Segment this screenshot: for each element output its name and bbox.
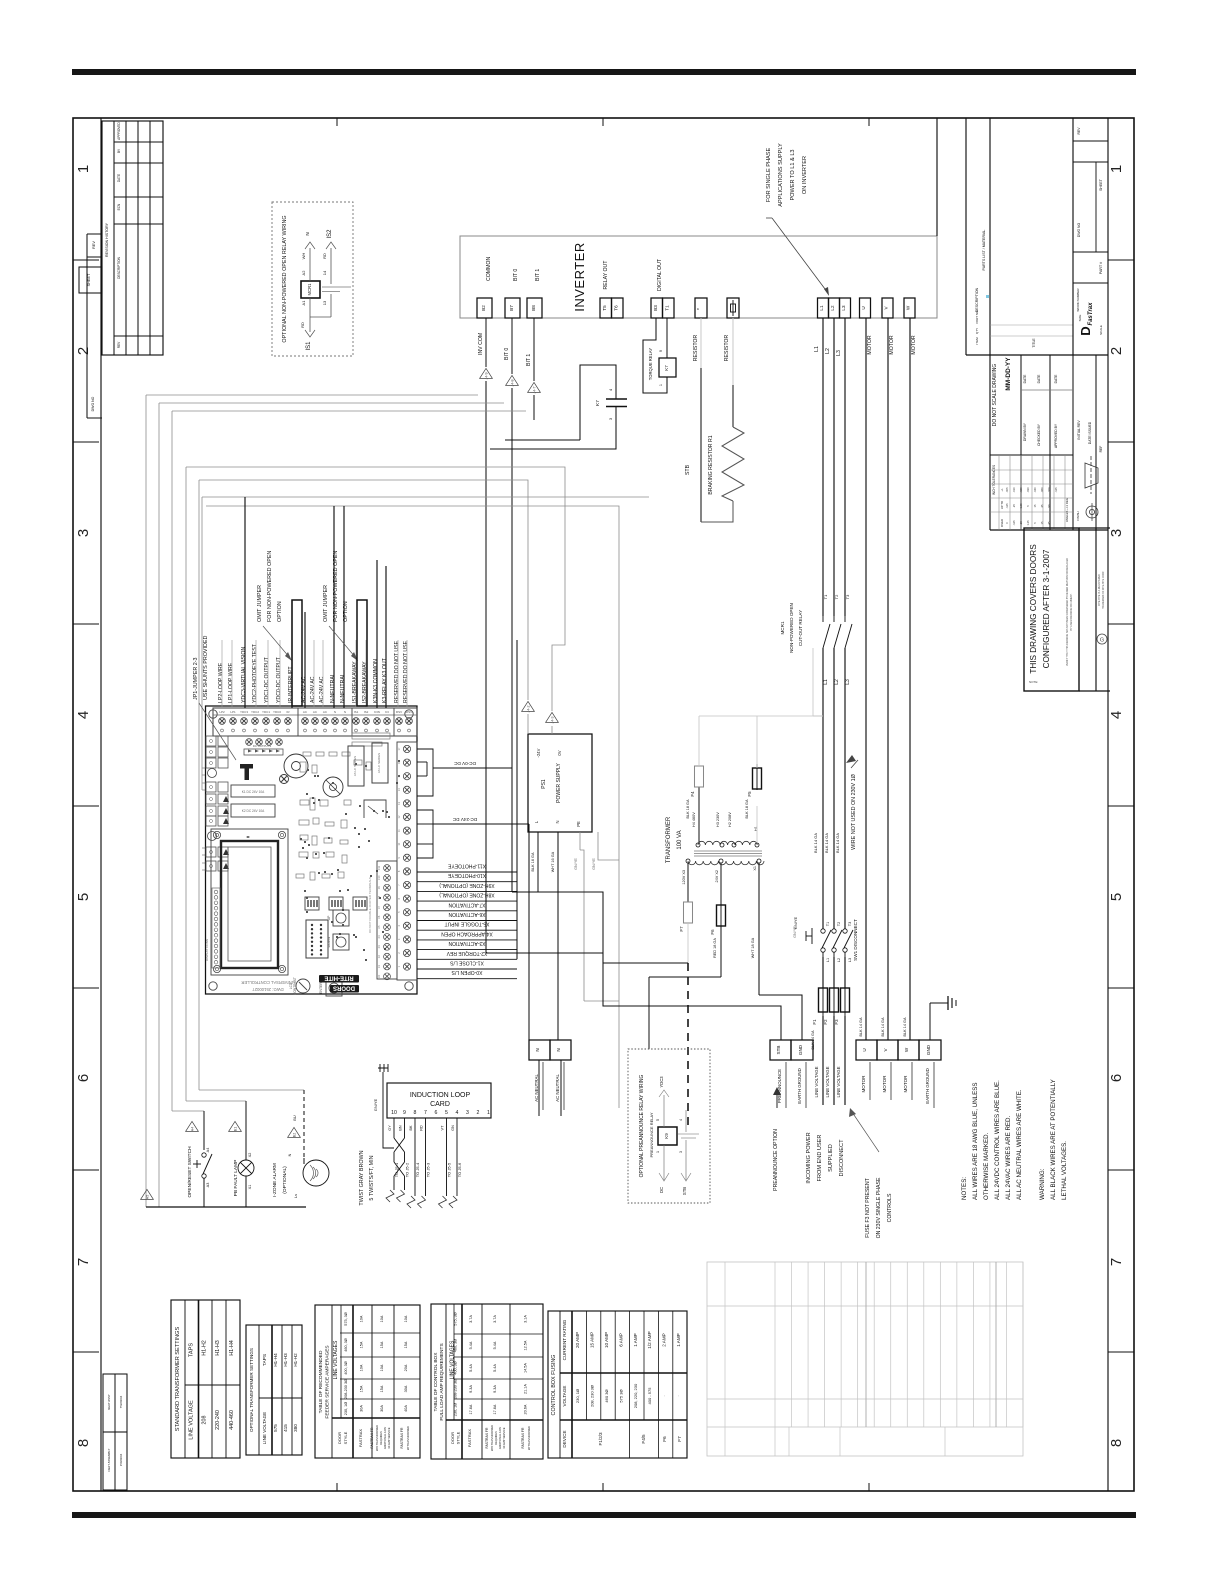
svg-text:9: 9 xyxy=(659,350,663,352)
svg-text:AC-24V AC: AC-24V AC xyxy=(319,676,325,703)
svg-text:L1: L1 xyxy=(826,958,830,962)
dc contactor screws xyxy=(246,739,253,746)
svg-text:.100: .100 xyxy=(1047,487,1051,493)
wire F7 to dashed junction xyxy=(687,923,689,963)
wire PS1 L join xyxy=(538,891,603,893)
terminal U xyxy=(860,298,871,318)
svg-text:A4: A4 xyxy=(191,1127,195,1131)
svg-text:RESERVED DO NOT USE: RESERVED DO NOT USE xyxy=(394,640,400,703)
svg-text:.005: .005 xyxy=(1005,487,1009,493)
svg-text:15A: 15A xyxy=(360,1385,364,1392)
svg-text:F4: F4 xyxy=(690,791,695,797)
svg-text:L2: L2 xyxy=(837,958,841,962)
svg-text:ANGLES +/-1 DEG: ANGLES +/-1 DEG xyxy=(1065,498,1069,522)
svg-text:VERIFY THAT THIS DRAWING HAS N: VERIFY THAT THIS DRAWING HAS NOT BEEN SU… xyxy=(1066,558,1069,666)
terminal T1 xyxy=(663,298,675,318)
wire BIT 0 from B7 xyxy=(511,318,513,374)
IC tall 2 xyxy=(372,743,388,783)
svg-text:L3: L3 xyxy=(848,958,852,962)
svg-text:MM-DD-YY: MM-DD-YY xyxy=(1005,357,1012,391)
svg-text:STB: STB xyxy=(776,1046,781,1055)
svg-text:1.25: 1.25 xyxy=(1026,520,1030,526)
wire B3 to torque relay xyxy=(643,318,667,393)
flag A4 ref xyxy=(186,1121,199,1131)
svg-text:N-NEUTRAL: N-NEUTRAL xyxy=(340,673,346,703)
svg-text:F7: F7 xyxy=(679,926,684,932)
svg-text:120V X3: 120V X3 xyxy=(682,870,686,885)
fuse F3 xyxy=(841,988,850,1012)
svg-text:SCALE: SCALE xyxy=(1099,325,1103,335)
svg-text:CARD: CARD xyxy=(430,1101,450,1108)
svg-text:L2: L2 xyxy=(830,305,835,311)
svg-text:LP1: LP1 xyxy=(230,710,236,714)
wire W from inverter to motor terminal xyxy=(909,318,911,1040)
terminal box GND earth xyxy=(791,1040,813,1060)
svg-text:L1: L1 xyxy=(814,346,820,352)
svg-text:A5: A5 xyxy=(146,1195,150,1199)
svg-text:LINE VOLTAGE: LINE VOLTAGE xyxy=(189,1400,195,1440)
svg-text:X10-PHOTOEYE: X10-PHOTOEYE xyxy=(447,872,486,878)
svg-text:MOTOR: MOTOR xyxy=(889,335,895,354)
wire DC-0V from output bracket xyxy=(433,767,512,769)
svg-text:QTY: QTY xyxy=(975,328,979,334)
fuse F5 xyxy=(753,768,762,789)
svg-text:FINISH: FINISH xyxy=(1076,511,1080,520)
svg-text:CURRENT RATING: CURRENT RATING xyxy=(562,1319,567,1360)
svg-text:DC OUTPUTS: DC OUTPUTS xyxy=(253,744,271,748)
svg-text:.030: .030 xyxy=(1026,487,1030,493)
svg-text:H1-H3: H1-H3 xyxy=(215,1340,221,1356)
svg-text:B8: B8 xyxy=(531,305,536,311)
wire to K7 capacitor top xyxy=(505,439,580,441)
leader from fuse note xyxy=(852,1112,879,1152)
svg-text:TAPS: TAPS xyxy=(189,1343,195,1357)
svg-text:BLK 14 GA: BLK 14 GA xyxy=(881,1017,885,1036)
svg-text:WH: WH xyxy=(301,253,306,260)
svg-text:14: 14 xyxy=(322,270,327,275)
svg-text:SHEET: SHEET xyxy=(1099,178,1103,191)
svg-text:FasTrax: FasTrax xyxy=(1088,302,1094,326)
svg-text:JP1-JUMPER 2-3: JP1-JUMPER 2-3 xyxy=(193,657,199,700)
svg-text:.060: .060 xyxy=(1040,487,1044,493)
terminal B2 COMMON xyxy=(477,298,492,318)
svg-text:3: 3 xyxy=(679,1151,683,1153)
svg-text:NEXT ASSEMBLY: NEXT ASSEMBLY xyxy=(107,1448,111,1471)
svg-text:A1: A1 xyxy=(301,300,306,306)
svg-text:REQUIRES: REQUIRES xyxy=(494,1431,498,1445)
svg-text:10: 10 xyxy=(391,1110,397,1116)
lcd contrast pot xyxy=(296,979,310,993)
svg-text:MOTOR: MOTOR xyxy=(861,1075,866,1093)
terminal V xyxy=(882,298,893,318)
wire U from inverter to motor terminal xyxy=(865,318,867,1040)
input terminal column X0-X11 xyxy=(377,861,397,979)
svg-text:14.5A: 14.5A xyxy=(524,1363,528,1373)
svg-text:TO J5-6: TO J5-6 xyxy=(457,1162,462,1177)
svg-text:FEEDER SERVICE AMPERAGES: FEEDER SERVICE AMPERAGES xyxy=(325,1345,331,1418)
wire BIT 1 from B8 xyxy=(533,318,535,381)
svg-text:K3N: K3N xyxy=(374,710,380,714)
svg-text:ON 230V SINGLE PHASE: ON 230V SINGLE PHASE xyxy=(876,1177,882,1238)
svg-text:+/-: +/- xyxy=(1000,488,1004,491)
svg-text:-24V: -24V xyxy=(536,748,541,757)
svg-text:RSV: RSV xyxy=(396,710,402,714)
svg-text:15A: 15A xyxy=(404,1341,408,1348)
svg-text:OPTION: OPTION xyxy=(277,601,283,622)
svg-text:K7: K7 xyxy=(664,365,669,371)
leader to L2 xyxy=(772,218,828,293)
svg-text:IR-INTERRUPT: IR-INTERRUPT xyxy=(288,666,294,703)
svg-text:DOOR: DOOR xyxy=(337,1432,342,1444)
svg-text:YDC1-DC OUTPUT: YDC1-DC OUTPUT xyxy=(264,656,270,703)
parts list block xyxy=(965,118,967,355)
left edge connector column C xyxy=(206,847,216,857)
pb fault lamp wire xyxy=(245,1101,247,1160)
loop wires VT GN xyxy=(446,1118,448,1196)
svg-text:DWG NO: DWG NO xyxy=(91,396,95,411)
svg-text:LP2-LOOP WIRE: LP2-LOOP WIRE xyxy=(218,662,224,703)
svg-text:H1-H3: H1-H3 xyxy=(283,1353,288,1367)
chassis ground symbol xyxy=(378,1067,388,1069)
svg-text:21.1A: 21.1A xyxy=(524,1384,528,1394)
circled G mark xyxy=(1097,634,1107,644)
svg-text:30 AMP SERVICE: 30 AMP SERVICE xyxy=(387,1427,391,1448)
svg-text:H1-H4: H1-H4 xyxy=(273,1353,278,1367)
svg-text:WHT 18 GA: WHT 18 GA xyxy=(751,937,755,958)
svg-text:LINE VOLTAGE: LINE VOLTAGE xyxy=(836,1066,841,1097)
board corner mounting holes xyxy=(209,710,217,718)
svg-text:20 AMP: 20 AMP xyxy=(575,1332,580,1348)
svg-text:PART #: PART # xyxy=(1099,262,1103,274)
svg-text:J4-3: J4-3 xyxy=(551,717,555,724)
svg-text:X1-CLOSE L/S: X1-CLOSE L/S xyxy=(450,960,484,966)
svg-text:L2: L2 xyxy=(825,348,831,354)
pb fault lamp xyxy=(238,1160,254,1176)
svg-text:230, 1Ø: 230, 1Ø xyxy=(575,1389,580,1403)
svg-text:1 AMP: 1 AMP xyxy=(633,1333,638,1347)
svg-text:CHECKED BY: CHECKED BY xyxy=(1037,423,1041,446)
svg-text:10A: 10A xyxy=(380,1315,384,1322)
svg-text:BLK 18 GA: BLK 18 GA xyxy=(686,799,690,818)
gray loop wires to transformer area xyxy=(202,496,649,498)
svg-text:N: N xyxy=(555,820,560,823)
svg-text:400 - 575: 400 - 575 xyxy=(647,1387,652,1405)
svg-text:N: N xyxy=(344,710,346,714)
svg-text:NOTES:: NOTES: xyxy=(961,1177,968,1200)
svg-text:7: 7 xyxy=(1108,1258,1125,1266)
svg-text:RELAY OUT: RELAY OUT xyxy=(603,260,609,290)
flag A5 xyxy=(141,1189,154,1199)
wire X2 through fuse F6 xyxy=(720,863,722,905)
svg-text:RITE-HITE IS A REGISTERED: RITE-HITE IS A REGISTERED xyxy=(1098,574,1101,606)
svg-text:INCH TOLERANCES: INCH TOLERANCES xyxy=(992,465,996,495)
svg-text:F7: F7 xyxy=(677,1436,682,1442)
i-zone alarm dashed wire xyxy=(303,1090,305,1158)
terminal L3 xyxy=(840,298,851,318)
svg-text:X8H-ZONE (OPTIONAL): X8H-ZONE (OPTIONAL) xyxy=(439,892,495,898)
svg-text:W: W xyxy=(906,305,911,310)
svg-text:X0: X0 xyxy=(377,974,381,978)
svg-text:TAPS: TAPS xyxy=(262,1354,268,1366)
svg-text:.125: .125 xyxy=(1012,520,1016,526)
svg-text:208-230 3Ø: 208-230 3Ø xyxy=(344,1379,348,1399)
svg-text:ON INVERTER: ON INVERTER xyxy=(802,156,808,194)
svg-text:DC-0V DC: DC-0V DC xyxy=(453,761,475,766)
top terminal strip xyxy=(213,708,417,736)
input wires with upside down labels xyxy=(417,871,517,873)
svg-text:A4: A4 xyxy=(206,1148,210,1153)
svg-text:BLK 14 GA: BLK 14 GA xyxy=(903,1017,907,1036)
svg-text:6 AMP: 6 AMP xyxy=(618,1333,623,1347)
svg-text:3.7A: 3.7A xyxy=(469,1315,473,1323)
svg-text:BLK 14 GA: BLK 14 GA xyxy=(824,833,829,853)
svg-text:GY: GY xyxy=(388,1125,392,1131)
svg-text:TITLE: TITLE xyxy=(1032,338,1036,348)
gray loop wires top corners xyxy=(146,394,478,396)
svg-text:YDC3-VIRTUAL VISION: YDC3-VIRTUAL VISION xyxy=(241,647,247,703)
wire from fuse terminal to braking resistor xyxy=(732,318,734,385)
svg-text:X4: X4 xyxy=(377,935,381,939)
svg-text:5: 5 xyxy=(75,893,92,901)
braking resistor R1 zigzag xyxy=(722,427,744,501)
terminal B7 BIT 0 xyxy=(505,298,520,318)
svg-text:30A: 30A xyxy=(404,1385,408,1392)
wire from K7 capacitor bottom xyxy=(490,407,616,450)
svg-text:BLK 16 GA: BLK 16 GA xyxy=(531,852,535,871)
svg-text:REV: REV xyxy=(117,341,121,348)
svg-text:10A: 10A xyxy=(360,1315,364,1322)
cyan speck xyxy=(986,295,989,298)
svg-text:4: 4 xyxy=(1108,711,1125,719)
svg-text:W: W xyxy=(904,1047,909,1052)
svg-text:RD: RD xyxy=(300,322,305,328)
svg-text:BY A NEW DRAWING DOCUMENT.: BY A NEW DRAWING DOCUMENT. xyxy=(1070,593,1073,630)
wire above F4 xyxy=(698,716,700,766)
flag B2 ref xyxy=(288,1127,301,1137)
svg-text:APPROVED: APPROVED xyxy=(117,121,121,139)
svg-text:75226004: 75226004 xyxy=(119,1395,123,1408)
svg-text:220-240: 220-240 xyxy=(215,1410,221,1430)
svg-text:LINE VOLTAGE: LINE VOLTAGE xyxy=(825,1066,830,1097)
left edge connector column B with arrows xyxy=(206,782,216,792)
terminal box N ac neutral left xyxy=(529,1040,550,1060)
svg-text:15026004: 15026004 xyxy=(119,1453,123,1466)
svg-text:T1: T1 xyxy=(665,305,670,311)
svg-text:GN/YE: GN/YE xyxy=(574,858,578,870)
svg-text:13: 13 xyxy=(322,300,327,305)
svg-text:DESCRIPTION: DESCRIPTION xyxy=(975,287,979,312)
svg-text:A2: A2 xyxy=(301,270,306,276)
svg-text:X2: X2 xyxy=(248,1153,252,1158)
svg-text:208, 230 3Ø: 208, 230 3Ø xyxy=(590,1385,595,1407)
svg-text:X2: X2 xyxy=(377,955,381,959)
svg-text:◂▸: ◂▸ xyxy=(246,834,250,839)
svg-text:PREANNOUNCE RELAY: PREANNOUNCE RELAY xyxy=(649,1112,654,1157)
svg-text:LETHAL VOLTAGES.: LETHAL VOLTAGES. xyxy=(1061,1141,1068,1200)
svg-text:·: · xyxy=(676,1395,681,1396)
svg-text:460, 3Ø: 460, 3Ø xyxy=(344,1338,348,1352)
svg-text:BLK 14 GA: BLK 14 GA xyxy=(859,1017,863,1036)
svg-text:17.6A: 17.6A xyxy=(469,1404,473,1414)
svg-text:POWER TO L1 & L3: POWER TO L1 & L3 xyxy=(790,149,796,200)
svg-text:8: 8 xyxy=(75,1439,92,1447)
fuse F4 xyxy=(695,766,704,787)
open/reset switch wire xyxy=(203,1111,205,1150)
IC tall 1 xyxy=(348,746,364,786)
wire H4 to fuse F4 xyxy=(698,787,700,843)
svg-text:9: 9 xyxy=(403,1110,406,1116)
MCR1 cut-out relay contacts xyxy=(823,624,830,648)
flag J4-9 xyxy=(480,368,493,378)
svg-text:N-NEUTRAL: N-NEUTRAL xyxy=(330,673,336,703)
svg-text:T6: T6 xyxy=(614,305,619,311)
MCR1 contact symbol xyxy=(322,286,351,288)
flag J4-3 above PS1 xyxy=(546,712,559,722)
svg-text:*: * xyxy=(697,308,703,310)
torque relay K7 contact box xyxy=(659,358,676,377)
svg-text:WIRE NOT USED ON 230V 1Ø: WIRE NOT USED ON 230V 1Ø xyxy=(851,773,857,849)
svg-text:5.4A: 5.4A xyxy=(493,1364,497,1372)
svg-text:2: 2 xyxy=(1108,347,1125,355)
svg-text:N: N xyxy=(288,1153,292,1156)
wire from * terminal xyxy=(700,318,702,368)
svg-text:5: 5 xyxy=(656,1119,660,1121)
stub wires above terminals xyxy=(221,640,223,708)
svg-text:B2: B2 xyxy=(293,1133,297,1137)
svg-text:15A: 15A xyxy=(360,1341,364,1348)
svg-text:1: 1 xyxy=(656,1151,660,1153)
control board outline xyxy=(206,706,418,994)
terminal L1 xyxy=(818,298,829,318)
svg-text:WORK NUMBER: WORK NUMBER xyxy=(1076,288,1080,312)
svg-text:PS1: PS1 xyxy=(541,779,547,789)
svg-text:L3: L3 xyxy=(836,350,842,356)
svg-text:TO J5-4: TO J5-4 xyxy=(415,1162,420,1177)
wire F6 down to preannounce area xyxy=(649,976,721,978)
svg-text:K3-RELAY K3 OUT: K3-RELAY K3 OUT xyxy=(382,657,388,703)
svg-text:FOR SINGLE PHASE: FOR SINGLE PHASE xyxy=(766,148,772,203)
svg-text:MCR1: MCR1 xyxy=(780,621,785,634)
svg-text:FASTRAX FR: FASTRAX FR xyxy=(370,1427,374,1448)
svg-text:YDC2-PHOTOEYE TEST: YDC2-PHOTOEYE TEST xyxy=(252,643,258,703)
svg-text:Ls: Ls xyxy=(294,1194,298,1198)
feeder stubs to L1 L3 xyxy=(699,715,823,717)
i-zone alarm speaker xyxy=(303,1160,329,1186)
LCD bezel xyxy=(221,841,278,968)
svg-text:1: 1 xyxy=(487,1110,490,1116)
wire BIT0 net down joining DC-0V xyxy=(511,388,513,892)
svg-text:YDC0-DC OUTPUT: YDC0-DC OUTPUT xyxy=(276,656,282,703)
svg-text:400, 3Ø: 400, 3Ø xyxy=(344,1361,348,1375)
svg-text:PREANNOUNCE OPTION: PREANNOUNCE OPTION xyxy=(773,1129,779,1191)
svg-text:J4-7: J4-7 xyxy=(533,387,537,394)
svg-text:8: 8 xyxy=(1108,1439,1125,1447)
svg-text:OPTIONAL NON-POWERED OPEN REL: OPTIONAL NON-POWERED OPEN RELAY WIRING xyxy=(282,215,288,342)
wires SW1 to fuses xyxy=(822,957,824,988)
full load amp requirements table xyxy=(431,1304,543,1459)
svg-text:1: 1 xyxy=(1108,165,1125,173)
svg-text:3.7A: 3.7A xyxy=(493,1315,497,1323)
svg-text:208: 208 xyxy=(202,1416,208,1425)
svg-text:REQUIRES: REQUIRES xyxy=(379,1431,383,1445)
svg-text:H1: H1 xyxy=(754,826,758,831)
svg-text:15A: 15A xyxy=(380,1385,384,1392)
svg-text:RESISTOR: RESISTOR xyxy=(693,335,699,362)
svg-text:7: 7 xyxy=(75,1258,92,1266)
svg-text:ALL AC NEUTRAL WIRES ARE WHITE: ALL AC NEUTRAL WIRES ARE WHITE. xyxy=(1016,1089,1023,1200)
svg-text:GND: GND xyxy=(798,1044,803,1055)
svg-text:LP2: LP2 xyxy=(219,710,225,714)
svg-text:380: 380 xyxy=(293,1424,298,1432)
wires L1 L2 L3 below contacts xyxy=(822,648,824,929)
pin header 2x8 xyxy=(306,920,328,958)
svg-text:20A: 20A xyxy=(404,1364,408,1371)
single phase jumper stub xyxy=(813,715,823,717)
svg-text:FOR NON-POWERED OPEN: FOR NON-POWERED OPEN xyxy=(267,551,273,622)
svg-text:MCR1: MCR1 xyxy=(307,283,312,296)
svg-text:NOTE:: NOTE: xyxy=(1029,680,1038,684)
svg-text:T2: T2 xyxy=(837,922,841,926)
wire X1 to ground terminal xyxy=(759,995,802,1040)
svg-text:BIT 1: BIT 1 xyxy=(526,354,532,366)
wire DC-24V from bracket to AC neutral xyxy=(433,823,529,825)
drawing coverage note box xyxy=(1024,528,1079,691)
svg-text:F4/5: F4/5 xyxy=(641,1434,646,1444)
svg-text:LINE VOLTAGE: LINE VOLTAGE xyxy=(262,1412,267,1445)
svg-text:15 AMP: 15 AMP xyxy=(590,1332,595,1348)
svg-text:TO J5-3: TO J5-3 xyxy=(426,1162,431,1177)
terminal T5 xyxy=(600,298,612,318)
wire IS2 branch with MCR1 contact xyxy=(330,248,332,284)
preannounce option arrow note xyxy=(776,1090,778,1108)
wire PS1 PE green-yellow xyxy=(579,832,581,850)
svg-text:TRANSFORMER: TRANSFORMER xyxy=(666,816,672,863)
flag B1 ref xyxy=(229,1121,242,1131)
wire YDC3 through K9 xyxy=(663,1095,665,1127)
svg-text:B3: B3 xyxy=(653,305,658,311)
svg-text:INCOMING POWER: INCOMING POWER xyxy=(806,1132,812,1183)
svg-text:VT: VT xyxy=(441,1125,445,1131)
svg-text:BIT 0: BIT 0 xyxy=(504,348,510,360)
rite-hite doors logo upside down xyxy=(319,975,359,983)
svg-text:FULL LOAD AMP REQUIREMENTS: FULL LOAD AMP REQUIREMENTS xyxy=(439,1343,445,1420)
svg-text:RESISTOR: RESISTOR xyxy=(724,335,730,362)
svg-text:X9H-ZONE (OPTIONAL): X9H-ZONE (OPTIONAL) xyxy=(439,882,495,888)
svg-text:RD: RD xyxy=(322,253,327,259)
svg-text:K2 DC 24V 10A: K2 DC 24V 10A xyxy=(242,809,265,813)
wire PS1 N to AC neutral xyxy=(557,832,559,1040)
small board components cluster xyxy=(303,752,311,756)
svg-text:K1 DC 24V 10A: K1 DC 24V 10A xyxy=(242,790,265,794)
svg-text:X5: X5 xyxy=(377,925,381,929)
svg-text:GN: GN xyxy=(451,1125,455,1131)
svg-text:1.25: 1.25 xyxy=(1019,503,1023,509)
svg-text:FUSE F3 NOT PRESENT: FUSE F3 NOT PRESENT xyxy=(865,1177,871,1237)
top heavy bar xyxy=(72,69,1136,75)
gray loop wires mid corners to PS1 flags xyxy=(186,467,565,711)
dip switch banks xyxy=(305,897,319,910)
svg-text:YDC1: YDC1 xyxy=(262,710,270,714)
svg-text:LP1-LOOP WIRE: LP1-LOOP WIRE xyxy=(228,662,234,703)
svg-text:BK: BK xyxy=(409,1125,413,1131)
open/reset switch xyxy=(202,1153,206,1157)
svg-text:GN/YE: GN/YE xyxy=(373,1098,378,1111)
wire INV COM net down to STB terminal xyxy=(485,381,487,953)
wire V from inverter to motor terminal xyxy=(887,318,889,1040)
svg-text:2: 2 xyxy=(477,1110,480,1116)
wire L3 from inverter xyxy=(844,318,846,616)
svg-text:1/2 AMP: 1/2 AMP xyxy=(647,1331,652,1348)
